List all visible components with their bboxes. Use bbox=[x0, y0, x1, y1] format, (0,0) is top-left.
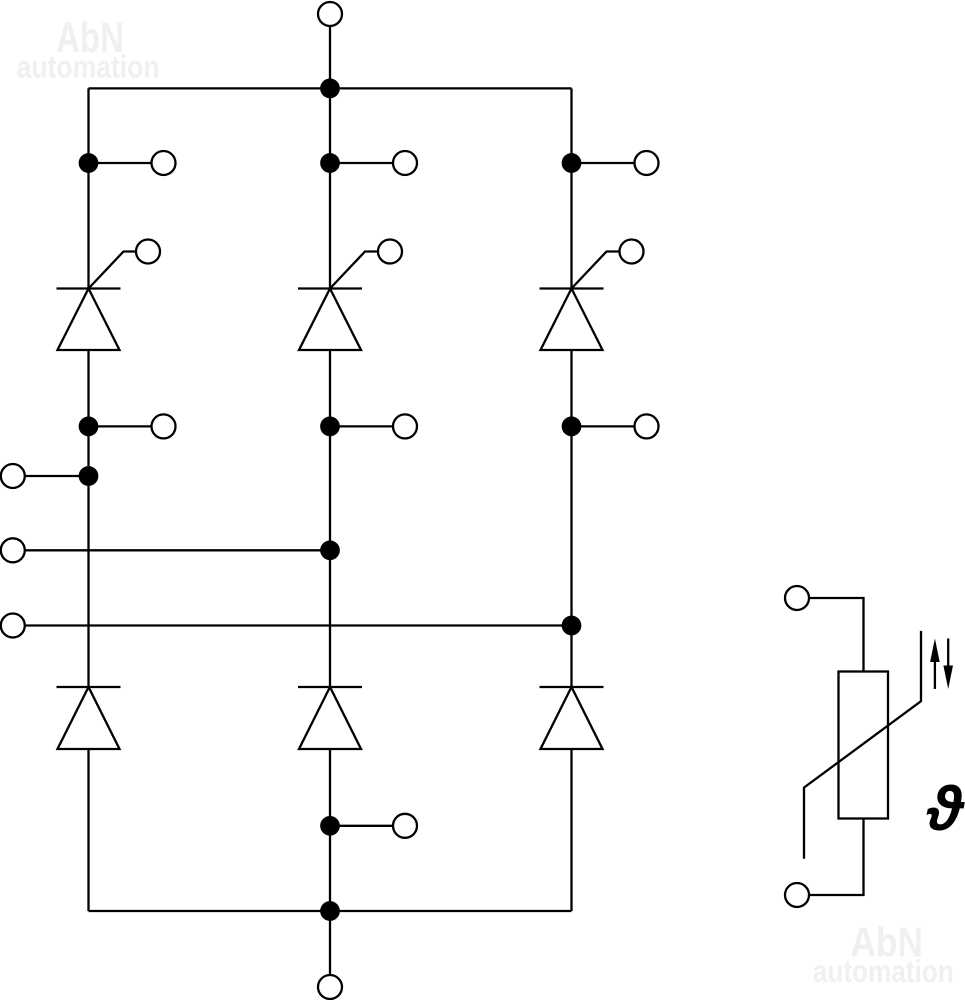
wire cathode stub middle bbox=[330, 162, 393, 164]
watermark AbN automation top-left bbox=[17, 15, 160, 85]
terminal thermistor bottom bbox=[785, 883, 809, 907]
terminal A3 bbox=[635, 414, 659, 438]
terminal K3 bbox=[635, 151, 659, 175]
diode D3 bbox=[540, 687, 604, 749]
terminal DC- aux bbox=[393, 814, 417, 838]
wire left leg lower bbox=[87, 749, 89, 911]
svg-text:automation: automation bbox=[17, 49, 160, 85]
node cathode tap right bbox=[563, 154, 580, 171]
node anode tap middle bbox=[321, 418, 338, 435]
wire phase L1 bbox=[25, 475, 89, 477]
wire anode stub middle bbox=[330, 425, 393, 427]
wire right leg lower bbox=[570, 749, 572, 911]
thyristor V2 bbox=[298, 289, 362, 351]
diode D2 bbox=[298, 687, 362, 749]
node anode tap right bbox=[563, 418, 580, 435]
terminal AC1 top bbox=[318, 2, 342, 26]
wire phase L2 bbox=[25, 549, 330, 551]
arrow up bbox=[930, 639, 940, 690]
wire right leg upper bbox=[570, 88, 572, 288]
terminal L2 bbox=[1, 538, 25, 562]
thyristor V1 bbox=[57, 289, 121, 351]
arrow down bbox=[943, 639, 953, 690]
node phase L1 / left leg bbox=[80, 467, 97, 484]
wire thermistor bottom lead bbox=[810, 819, 864, 896]
terminal K1 bbox=[152, 151, 176, 175]
wire bottom bus bbox=[89, 910, 572, 912]
wire phase L3 bbox=[25, 624, 572, 626]
wire thermistor top lead bbox=[810, 598, 864, 672]
terminal G3 bbox=[620, 240, 644, 264]
wire gate lead V1 bbox=[89, 252, 137, 289]
node junction bottom bus / middle leg bbox=[321, 902, 338, 919]
terminal A1 bbox=[152, 414, 176, 438]
wire right leg middle bbox=[570, 350, 572, 687]
svg-text:automation: automation bbox=[813, 953, 954, 989]
terminal L3 bbox=[1, 614, 25, 638]
wire cathode stub right bbox=[572, 162, 635, 164]
terminal K2 bbox=[393, 151, 417, 175]
node minus tap middle bbox=[321, 817, 338, 834]
node cathode tap left bbox=[80, 154, 97, 171]
diode D1 bbox=[57, 687, 121, 749]
thermistor R1 body bbox=[839, 672, 889, 819]
wire gate lead V3 bbox=[572, 252, 620, 289]
wire top terminal to bus bbox=[329, 26, 331, 88]
thyristor V3 bbox=[540, 289, 604, 351]
wire middle leg lower bbox=[329, 749, 331, 911]
terminal A2 bbox=[393, 414, 417, 438]
wire gate lead V2 bbox=[330, 252, 378, 289]
node phase L2 / middle leg bbox=[321, 542, 338, 559]
terminal DC- bottom bbox=[318, 975, 342, 999]
terminal G2 bbox=[378, 240, 402, 264]
node junction top bus / middle leg bbox=[321, 80, 338, 97]
watermark AbN automation bottom-right bbox=[813, 918, 954, 989]
node cathode tap middle bbox=[321, 154, 338, 171]
wire bus to bottom terminal bbox=[329, 911, 331, 975]
wire minus stub middle bbox=[330, 825, 393, 827]
svg-text:ϑ: ϑ bbox=[926, 775, 965, 844]
wire anode stub right bbox=[572, 425, 635, 427]
wire left leg middle bbox=[87, 350, 89, 687]
wire top bus bbox=[89, 87, 572, 89]
wire left leg upper bbox=[87, 88, 89, 288]
terminal thermistor top bbox=[785, 586, 809, 610]
wire cathode stub left bbox=[89, 162, 152, 164]
wire middle leg middle bbox=[329, 350, 331, 687]
wire anode stub left bbox=[89, 425, 152, 427]
terminal G1 bbox=[136, 240, 160, 264]
node anode tap left bbox=[80, 418, 97, 435]
node phase L3 / right leg bbox=[563, 617, 580, 634]
thermistor R1 slash bbox=[804, 631, 921, 859]
wire middle leg upper bbox=[329, 88, 331, 288]
terminal L1 bbox=[1, 464, 25, 488]
label theta bbox=[926, 775, 965, 844]
